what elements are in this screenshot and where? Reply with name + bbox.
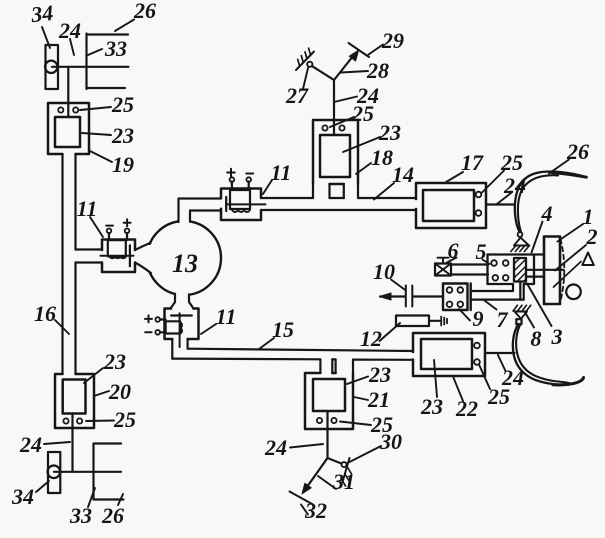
valve 6 (438, 258, 449, 264)
svg-text:22: 22 (455, 396, 478, 421)
leader 2 (555, 245, 586, 271)
leader 16 (55, 320, 69, 334)
svg-text:34: 34 (29, 0, 54, 27)
svg-text:11: 11 (271, 160, 292, 185)
wire bottom neck of 13 (171, 294, 194, 309)
svg-text:28: 28 (366, 58, 389, 83)
svg-text:26: 26 (101, 503, 124, 528)
leader 33 top-left (88, 49, 102, 55)
rod 24 horizontal bottom-left (54, 471, 121, 473)
svg-text:23: 23 (420, 394, 443, 419)
svg-text:26: 26 (133, 0, 156, 23)
pump circle 13 (147, 221, 221, 295)
leader 18 (356, 163, 371, 174)
svg-text:25: 25 (500, 150, 523, 175)
leader 26 top-right (549, 160, 569, 174)
rod 24 of 20 (71, 414, 73, 472)
svg-text:4: 4 (541, 201, 553, 226)
pivot link 27 (312, 66, 334, 80)
follower roller 34 bottom (48, 452, 60, 493)
svg-text:16: 16 (34, 301, 56, 326)
leader 3 (527, 284, 552, 327)
leader 25 of 21 (340, 422, 371, 426)
leader 24 top-left (70, 39, 74, 55)
svg-text:11: 11 (77, 196, 98, 221)
leader 23 of 20 (84, 368, 103, 383)
solenoid valve 11 bottom (145, 309, 199, 359)
leader 34 bottom (36, 481, 49, 492)
svg-text:13: 13 (172, 249, 198, 278)
follower roller 34 top (46, 45, 59, 89)
svg-text:31: 31 (332, 469, 355, 494)
svg-text:5: 5 (476, 239, 487, 264)
distributor block 5 (488, 255, 535, 285)
leader 11 bottom (201, 324, 216, 334)
force arrow 31 (306, 458, 328, 489)
wire left neck of 13 (135, 243, 151, 273)
svg-text:7: 7 (497, 307, 509, 332)
svg-text:11: 11 (216, 304, 237, 329)
svg-text:10: 10 (373, 259, 395, 284)
rudder blade 2 dashed (561, 239, 565, 301)
svg-text:23: 23 (103, 349, 126, 374)
rod 24 of 18 (333, 80, 335, 135)
cam fork 26 bottom with middle tooth 33 (94, 444, 124, 500)
svg-text:25: 25 (351, 101, 374, 126)
tiller crescent 26 top right (515, 171, 587, 231)
sensor box 21 (305, 373, 353, 429)
sensor box 19 (48, 103, 89, 154)
leader 23 of 22 (434, 360, 437, 397)
leader 5 (483, 260, 490, 265)
leader 11 top (263, 180, 272, 194)
leader 30 (348, 446, 382, 463)
svg-text:23: 23 (368, 362, 391, 387)
sensor box 17 (416, 183, 486, 228)
valve block 9 (443, 284, 468, 311)
leader 1 (558, 224, 584, 242)
piston block 3 hatched (514, 258, 526, 282)
svg-text:18: 18 (371, 145, 393, 170)
svg-text:2: 2 (586, 224, 598, 249)
svg-text:9: 9 (473, 306, 484, 331)
leader 25 of 17 (482, 171, 504, 193)
solenoid valve 11 left (101, 219, 136, 272)
tie line to position marker 2 (554, 262, 582, 288)
leader 24 top-right (497, 193, 511, 204)
leader 23 of 19 (82, 133, 111, 135)
rod 24 horizontal top-left (52, 66, 129, 68)
svg-text:24: 24 (264, 435, 287, 460)
pipe 14 (262, 198, 416, 210)
lever linkage 30 31 32 at bottom (290, 458, 352, 505)
svg-text:26: 26 (566, 139, 589, 164)
steering gear cluster right (380, 237, 594, 327)
pivot anchor above crescent bottom (513, 305, 531, 324)
link step 5 to 7 (512, 284, 514, 291)
leader 24 of 18 (334, 97, 357, 103)
sensor box 22 (413, 333, 485, 376)
svg-text:34: 34 (11, 484, 34, 509)
wire jog to left valve (76, 250, 103, 263)
cam fork 26 top with middle tooth 33 (87, 34, 129, 90)
leader 33 bottom (88, 488, 95, 507)
wire legs of 18 (313, 184, 358, 198)
rod 24 of 21 (326, 411, 328, 458)
svg-text:12: 12 (360, 326, 382, 351)
stroke mark 29 (349, 43, 370, 57)
svg-text:24: 24 (501, 365, 524, 390)
leader 26 top-left (115, 20, 134, 32)
leader 32 (301, 505, 308, 515)
svg-text:3: 3 (551, 324, 563, 349)
rudder stock shaft (526, 270, 564, 277)
svg-text:24: 24 (58, 18, 81, 43)
leader 34 top (42, 27, 50, 48)
leader 25 of 19 (80, 107, 111, 110)
leader 6 (447, 258, 457, 263)
svg-text:17: 17 (461, 150, 484, 175)
leader 28 (341, 71, 368, 73)
leader 24 bottom-right (498, 355, 506, 371)
leader 4 (532, 222, 543, 253)
solenoid valve 11 top (221, 169, 266, 220)
pipe 16 left vertical (63, 154, 76, 374)
tiller crescent bottom right (513, 324, 584, 385)
link 8 (520, 282, 523, 300)
leader 25 of 22 (479, 365, 490, 390)
svg-text:6: 6 (448, 238, 459, 263)
svg-text:25: 25 (113, 407, 136, 432)
svg-text:33: 33 (69, 503, 92, 528)
svg-text:33: 33 (104, 36, 127, 61)
rudder post 1 (544, 237, 560, 305)
svg-text:8: 8 (531, 326, 542, 351)
svg-text:27: 27 (285, 83, 309, 108)
leader 25 of 18 (330, 117, 354, 127)
svg-text:24: 24 (503, 173, 526, 198)
marker triangle (582, 253, 594, 266)
leader 31 (318, 476, 336, 489)
leader 8 (525, 312, 535, 328)
wire 24 from 22 (485, 352, 515, 354)
leader 26 bottom (118, 494, 123, 505)
sensor box 18 (313, 120, 358, 184)
feedback bar 7 (471, 291, 524, 300)
leader 14 (374, 183, 394, 200)
lever linkage 27 28 29 at top (296, 43, 369, 80)
leader 19 (90, 151, 112, 162)
svg-text:15: 15 (272, 317, 294, 342)
leader 27 (303, 68, 308, 89)
leader 17 (446, 172, 463, 182)
svg-text:29: 29 (381, 28, 404, 53)
svg-text:30: 30 (379, 429, 402, 454)
svg-text:19: 19 (112, 152, 134, 177)
svg-text:23: 23 (111, 123, 134, 148)
sensor box 20 (55, 374, 94, 428)
leader 29 (369, 45, 384, 55)
pipe 15 (172, 349, 413, 360)
svg-text:23: 23 (378, 120, 401, 145)
svg-text:24: 24 (19, 432, 42, 457)
stroke mark 32 (290, 492, 314, 505)
marker circle (566, 285, 581, 300)
leader 20 (94, 391, 109, 396)
svg-text:25: 25 (111, 92, 134, 117)
svg-text:14: 14 (392, 162, 414, 187)
leader 9 (459, 309, 470, 321)
cylinder 12 (396, 316, 429, 327)
wire legs of 21 (320, 359, 353, 373)
wire 24 from 17 (486, 203, 515, 205)
leader 23 of 18 (343, 137, 380, 152)
damper 10 wire and arrow (380, 295, 443, 297)
leader 22 (453, 377, 463, 402)
wire top neck of 13 (179, 199, 222, 223)
svg-text:20: 20 (108, 379, 131, 404)
svg-text:32: 32 (304, 498, 327, 523)
leader 10 (391, 280, 405, 290)
leader 24 bottom-left (44, 442, 70, 444)
rod 24 of 19 (67, 67, 69, 117)
pivot anchor under crescent top (511, 232, 530, 251)
frame 4 top plate (488, 253, 545, 255)
leader 21 (354, 397, 368, 400)
leader 23 of 21 (347, 377, 368, 385)
leader 7 (485, 301, 497, 310)
leader 15 (259, 338, 274, 349)
leader 25 of 20 (86, 420, 114, 423)
leader 11 left (90, 217, 103, 237)
svg-text:21: 21 (367, 387, 390, 412)
force arrow 28 (334, 56, 354, 81)
leader 24 of 21 (290, 444, 323, 448)
pivot link 30 (328, 458, 342, 464)
rod from 6 to 5 (451, 265, 488, 275)
leader 12 (380, 323, 401, 341)
